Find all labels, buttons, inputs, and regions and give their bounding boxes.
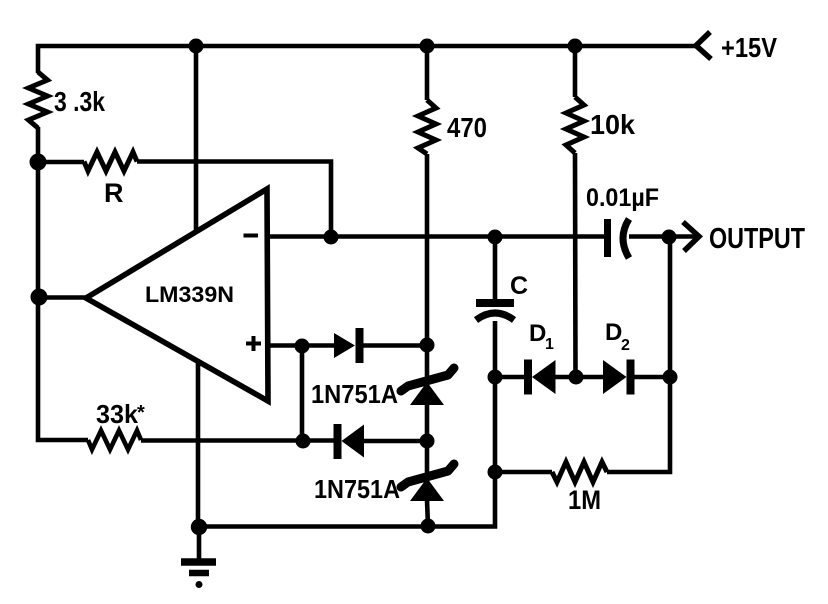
svg-text:*: *	[137, 402, 145, 424]
wire: 33k row to diode D4	[141, 438, 336, 443]
wire: 10k branch vertical down to D1-D2 node	[573, 153, 578, 377]
junction: 33k row / vertical	[296, 434, 311, 449]
wire: D row left segment	[495, 375, 525, 380]
diode D3 (to zener stack, points right)	[334, 328, 427, 363]
wire: vertical from non-inverting node down to 33k row	[300, 346, 305, 441]
wire: non-inverting input row	[270, 343, 336, 348]
svg-text:1: 1	[545, 336, 554, 353]
+15V supply terminal arrow	[696, 32, 711, 59]
op-amp U1 LM339N	[86, 189, 268, 401]
junction: left rail / op-amp output	[31, 289, 48, 306]
wire: op-amp output apex to left rail	[39, 295, 86, 300]
svg-text:33k: 33k	[96, 399, 139, 429]
wire: 1M right, up right vertical to output node	[607, 239, 670, 472]
junction: non-inverting input node	[295, 339, 310, 354]
diode D2 (points right)	[603, 360, 631, 395]
wire: left vertical from 3.3k down to 33k row	[38, 127, 88, 440]
wire: 470 branch stub from top rail	[425, 44, 430, 100]
svg-text:10k: 10k	[590, 109, 635, 140]
junction: inverting line / capacitor C	[488, 230, 503, 245]
wire: inverting input row (right of coupling cap to output)	[629, 234, 697, 239]
junction: output node	[662, 230, 677, 245]
junction: bottom rail / zener stack	[421, 519, 436, 534]
wire: node A to resistor R	[38, 160, 84, 165]
label D2	[605, 319, 630, 354]
resistor 1M	[552, 462, 607, 482]
svg-text:1N751A: 1N751A	[311, 379, 398, 409]
resistor R	[84, 152, 137, 171]
resistor 3.3k	[29, 72, 48, 128]
zener diode 1N751A lower	[401, 441, 454, 526]
wire: op-amp ground vertical lower (op-amp to bottom rail)	[196, 362, 201, 527]
junction: inverting line / R branch	[324, 230, 339, 245]
resistor 470	[418, 100, 436, 154]
op-amp U1 non-inverting input pin (+)	[246, 336, 261, 351]
svg-text:C: C	[510, 272, 528, 300]
junction: 470 branch / diode D3	[420, 338, 435, 353]
svg-text:R: R	[104, 178, 124, 208]
junction: D row / capacitor C branch	[488, 370, 503, 385]
junction: 1M row / C branch vertical	[488, 465, 503, 480]
capacitor 0.01uF coupling	[608, 219, 630, 258]
diode D1 (points left)	[528, 360, 556, 395]
wire: +15V supply top rail	[38, 46, 698, 73]
wire: C branch down and bottom rail to ground node	[199, 377, 495, 527]
zener diode 1N751A upper	[401, 345, 454, 441]
junction: 470 branch / diode D4	[420, 434, 435, 449]
svg-text:470: 470	[447, 112, 487, 143]
svg-text:1N751A: 1N751A	[314, 474, 400, 504]
wire: D row right segment	[630, 375, 670, 380]
ground	[181, 526, 216, 588]
svg-text:1M: 1M	[568, 485, 601, 515]
wire: 470 branch vertical down to diode node	[425, 154, 430, 346]
svg-text:LM339N: LM339N	[145, 282, 234, 307]
svg-text:0.01µF: 0.01µF	[586, 184, 659, 212]
junction: D row / output vertical	[663, 370, 678, 385]
label D1	[529, 320, 554, 353]
junction: top rail / 10k branch	[568, 39, 583, 54]
junction: D row / 10k branch	[569, 370, 584, 385]
junction: top rail / op-amp supply	[189, 39, 204, 54]
junction: left rail / resistor R	[30, 154, 47, 171]
junction: bottom rail / ground	[191, 519, 207, 535]
diode D4 (feedback, points left)	[338, 424, 428, 459]
svg-text:D: D	[529, 320, 546, 347]
op-amp U1 inverting input pin (-)	[244, 234, 259, 238]
svg-text:2: 2	[621, 337, 630, 354]
resistor 10k	[566, 97, 584, 153]
junction: top rail / 470 branch	[420, 39, 435, 54]
svg-text:+15V: +15V	[721, 32, 777, 63]
output terminal arrow	[683, 222, 699, 251]
svg-text:OUTPUT: OUTPUT	[709, 223, 805, 255]
svg-text:3 .3k: 3 .3k	[54, 86, 105, 117]
wire: D row middle segment	[555, 375, 603, 380]
wire: 10k branch stub from top rail	[573, 44, 578, 97]
wire: resistor R right, corner down to inverting input line	[137, 162, 331, 238]
svg-text:D: D	[605, 319, 622, 346]
capacitor C	[476, 237, 514, 377]
wire: inverting input row (left of coupling cap)	[270, 234, 604, 239]
wire: op-amp supply vertical upper (top rail to op-amp)	[194, 44, 199, 232]
wire: 1M row left segment	[495, 470, 552, 475]
resistor 33k	[88, 431, 141, 450]
